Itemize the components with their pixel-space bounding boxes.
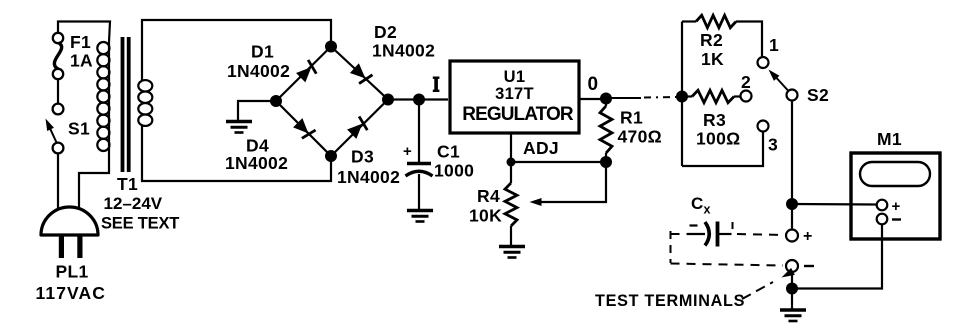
svg-text:ADJ: ADJ <box>523 138 559 158</box>
op-amp U1 317T regulator box <box>450 61 579 133</box>
svg-text:S1: S1 <box>68 119 90 139</box>
svg-text:+: + <box>803 228 813 245</box>
wire R2/R3 left branch vertical <box>681 22 683 167</box>
bridge node bottom <box>325 150 337 162</box>
svg-text:+: + <box>892 198 901 215</box>
bridge rectifier wires <box>276 47 388 157</box>
resistor R1 470 ohm <box>600 103 612 158</box>
svg-text:C1: C1 <box>437 142 460 162</box>
svg-text:M1: M1 <box>877 129 902 149</box>
diode D4 1N4002 <box>292 117 316 141</box>
wire S1 to plug <box>58 153 60 234</box>
label S2 <box>807 85 829 105</box>
svg-text:TEST TERMINALS: TEST TERMINALS <box>595 292 745 310</box>
label - test terminal <box>804 265 814 267</box>
label meter + <box>892 198 901 215</box>
switch contact 1 <box>758 57 769 68</box>
label R1 470ohm <box>618 108 662 147</box>
capacitor C1 <box>406 104 433 209</box>
svg-text:0: 0 <box>588 74 599 95</box>
svg-text:R3: R3 <box>703 110 726 130</box>
diode D2 1N4002 <box>349 63 373 86</box>
label ADJ <box>523 138 559 158</box>
node meter junction <box>786 198 798 210</box>
transformer T1 primary winding <box>79 42 110 232</box>
svg-text:1K: 1K <box>701 49 724 69</box>
svg-text:D1: D1 <box>251 42 274 62</box>
ground at bridge <box>226 122 252 133</box>
svg-text:1N4002: 1N4002 <box>337 167 400 187</box>
wire bridge left node to ground <box>238 101 276 120</box>
wire - terminal to ground node <box>791 272 793 285</box>
label S1 <box>68 119 90 139</box>
label - of Cx <box>690 224 698 226</box>
wire U1 output <box>579 98 602 100</box>
diode D3 1N4002 <box>346 116 370 140</box>
diode D1 1N4002 <box>295 60 319 84</box>
label 3 <box>768 135 778 155</box>
svg-text:1A: 1A <box>70 51 93 71</box>
svg-text:SEE TEXT: SEE TEXT <box>101 215 179 233</box>
switch contact 3 <box>758 121 769 132</box>
svg-text:1000: 1000 <box>434 161 474 181</box>
switch contact 2 <box>741 91 752 102</box>
label O output pin <box>588 74 599 95</box>
label M1 <box>877 129 902 149</box>
svg-text:1N4002: 1N4002 <box>372 41 435 61</box>
resistor R2 1K <box>682 15 762 56</box>
wire R1 bottom to R4 wiper <box>530 162 607 206</box>
svg-text:10K: 10K <box>469 206 502 226</box>
meter M1 box <box>851 153 940 239</box>
label T1 12-24V SEE TEXT <box>101 174 179 233</box>
switch S1 <box>42 104 63 154</box>
resistor R3 100 ohm <box>682 90 740 102</box>
label R3 100ohm <box>696 110 740 149</box>
wire bridge to U1 input <box>388 98 448 100</box>
node ground junction <box>786 283 798 295</box>
bridge node left <box>270 95 282 107</box>
svg-text:117VAC: 117VAC <box>36 283 106 303</box>
svg-text:1N4002: 1N4002 <box>227 61 290 81</box>
label R4 10K <box>469 186 502 226</box>
label C1 1000 <box>434 142 474 181</box>
label TEST TERMINALS <box>595 292 745 310</box>
svg-text:C: C <box>691 194 704 213</box>
wire top rail from fuse to transformer primary <box>58 22 110 43</box>
svg-text:3: 3 <box>768 135 778 155</box>
svg-text:x: x <box>704 203 711 217</box>
switch S2 wiper arrow <box>766 67 788 91</box>
svg-text:PL1: PL1 <box>56 262 89 282</box>
svg-text:REGULATOR: REGULATOR <box>462 104 574 125</box>
node ADJ <box>507 158 516 167</box>
svg-text:D3: D3 <box>351 147 374 167</box>
label + of C1 <box>403 143 412 160</box>
svg-text:D2: D2 <box>374 22 397 42</box>
svg-text:S2: S2 <box>807 85 829 105</box>
svg-text:470Ω: 470Ω <box>618 127 662 147</box>
node R2/R3 junction <box>676 91 688 103</box>
meter - terminal <box>877 214 888 225</box>
svg-text:12–24V: 12–24V <box>104 194 163 213</box>
test terminal - <box>786 260 798 272</box>
label + tick of Cx <box>732 222 734 229</box>
label I input pin <box>433 77 440 93</box>
label D1 1N4002 <box>227 42 290 82</box>
fuse F1 <box>53 33 63 79</box>
switch S2 pole <box>787 90 798 101</box>
label D3 1N4002 <box>337 147 400 188</box>
ground at R4 <box>499 247 525 258</box>
ground at test terminals <box>780 293 806 321</box>
ground at C1 <box>407 211 433 222</box>
label PL1 117VAC <box>36 262 106 304</box>
svg-text:F1: F1 <box>70 32 91 52</box>
capacitor Cx under test <box>687 222 732 247</box>
label + test terminal <box>803 228 813 245</box>
transformer T1 core <box>121 37 131 172</box>
svg-text:2: 2 <box>741 72 751 92</box>
svg-text:R2: R2 <box>700 30 723 50</box>
label Cx <box>691 194 711 217</box>
wire fuse to S1 <box>57 79 59 105</box>
node output <box>600 93 612 105</box>
wire node to + test terminal <box>791 204 793 229</box>
wire node to meter + <box>792 203 876 206</box>
wire contact 3 to bottom branch <box>682 132 763 167</box>
label 2 <box>741 72 751 92</box>
label D2 1N4002 <box>372 22 435 61</box>
bridge node top <box>325 41 337 53</box>
potentiometer R4 10K <box>505 162 517 246</box>
wire S2 pole down to M1 node <box>791 101 793 201</box>
svg-text:1N4002: 1N4002 <box>225 153 288 173</box>
test terminal + <box>786 230 798 242</box>
svg-text:R4: R4 <box>477 186 500 206</box>
dashed leads to test terminals <box>671 231 785 266</box>
arrow to test terminals <box>742 268 795 299</box>
svg-text:R1: R1 <box>620 108 643 128</box>
bridge node right <box>382 94 394 106</box>
meter + terminal <box>877 200 888 211</box>
label 1 <box>769 35 779 55</box>
plug PL1 <box>41 207 98 258</box>
node R1 bottom / ADJ net <box>600 156 612 168</box>
svg-text:T1: T1 <box>117 174 138 194</box>
transformer T1 secondary winding <box>138 20 331 181</box>
wire output to R2/R3 node (dash-dot) <box>611 97 677 98</box>
label D4 1N4002 <box>225 136 288 174</box>
svg-text:100Ω: 100Ω <box>696 129 740 149</box>
svg-text:1: 1 <box>769 35 779 55</box>
node C1 junction <box>413 94 425 106</box>
label U1 317T REGULATOR <box>462 68 574 125</box>
label meter - <box>892 218 901 220</box>
svg-text:317T: 317T <box>495 85 534 103</box>
svg-text:+: + <box>403 143 412 160</box>
label R2 1K <box>700 30 724 69</box>
wire ground node to meter - <box>792 224 882 289</box>
wire ADJ node to R1 bottom <box>511 161 606 163</box>
svg-text:U1: U1 <box>504 68 526 86</box>
wire ADJ pin of U1 <box>510 133 512 158</box>
label F1 1A <box>70 32 93 71</box>
